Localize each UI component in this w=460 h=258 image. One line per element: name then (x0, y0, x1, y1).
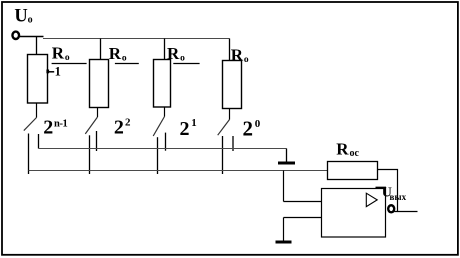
svg-text:2: 2 (125, 117, 131, 129)
svg-text:1: 1 (55, 65, 61, 79)
label R3 underline (173, 63, 199, 65)
label U0 (input voltage) (14, 6, 32, 26)
switch S1 blade (24, 118, 37, 131)
svg-text:R: R (167, 44, 180, 63)
op-amp triangle symbol (366, 193, 377, 206)
svg-text:o: o (65, 53, 70, 63)
switch S4 right contact wire (232, 136, 234, 151)
resistor R1 (28, 55, 48, 104)
svg-text:o: o (28, 14, 33, 25)
wire: R2 top stub (100, 39, 102, 60)
svg-text:2: 2 (114, 116, 124, 138)
input terminal node (12, 32, 19, 39)
wire: op-amp inverting input (284, 201, 322, 203)
svg-text:oc: oc (350, 148, 360, 159)
label Uout serif tick (376, 187, 387, 189)
svg-text:вых: вых (390, 192, 407, 202)
svg-text:U: U (14, 6, 27, 26)
label R3: Ro (167, 44, 185, 64)
svg-text:o: o (244, 55, 249, 65)
wire: upper bus (to ground) (39, 148, 287, 150)
label S1: 2^(n-1) (43, 116, 67, 138)
wire: R1 top stub (36, 37, 38, 56)
label R1 denominator "-1" (46, 65, 60, 79)
wire: R3 top stub (164, 39, 166, 60)
label R2: Ro (109, 44, 127, 64)
switch S2 right contact wire (96, 131, 98, 151)
switch S2 pole stub (97, 108, 99, 118)
ground bar (op-amp input) (276, 241, 292, 244)
wire: summing node drop (283, 171, 285, 202)
resistor R2 (90, 60, 109, 108)
svg-text:R: R (336, 140, 349, 159)
label R4: Ro (231, 45, 249, 65)
wire: non-inverting input to ground (283, 218, 285, 241)
svg-text:0: 0 (255, 118, 261, 130)
ground bar (upper bus) (278, 162, 295, 165)
svg-text:o: o (180, 54, 185, 64)
switch S2 blade (85, 117, 97, 134)
wire: feedback from Roc to output (378, 170, 398, 212)
switch S4 left contact wire (222, 136, 224, 174)
op-amp U1 box (322, 189, 386, 238)
resistor R4 (223, 61, 242, 109)
resistor Roc (feedback) (328, 162, 378, 180)
switch S1 pole stub (36, 103, 38, 118)
label S4: 2^0 (243, 117, 261, 141)
svg-text:1: 1 (191, 117, 197, 129)
wire: R4 top stub (229, 39, 231, 61)
svg-text:R: R (52, 44, 65, 63)
switch S1 left contact wire (28, 134, 30, 175)
label R2 underline (115, 63, 139, 65)
svg-text:n-1: n-1 (54, 119, 68, 130)
wire: top bus (43, 38, 230, 40)
label Uout (382, 185, 407, 202)
wire: op-amp non-inverting input (284, 217, 322, 219)
label S3: 2^1 (180, 117, 197, 140)
svg-text:2: 2 (180, 118, 190, 140)
switch S3 left contact wire (157, 137, 159, 174)
resistor R3 (154, 60, 171, 108)
switch S2 left contact wire (89, 135, 91, 174)
svg-text:2: 2 (43, 116, 53, 138)
wire: input node to first tee (19, 36, 43, 38)
label Roc (336, 140, 359, 160)
svg-text:o: o (122, 53, 127, 63)
svg-text:R: R (231, 45, 244, 64)
svg-text:R: R (109, 44, 122, 63)
switch S3 blade (153, 117, 164, 137)
switch S4 blade (218, 120, 230, 136)
svg-text:2: 2 (243, 117, 254, 141)
label S2: 2^2 (114, 116, 131, 138)
wire: output line (395, 211, 418, 213)
wire: upper bus drop to ground bar (286, 149, 288, 162)
switch S3 pole stub (164, 107, 166, 117)
switch S3 right contact wire (165, 133, 167, 151)
label R1 underline (52, 63, 87, 65)
output terminal node (388, 205, 394, 212)
label R1: Ro (52, 44, 70, 64)
switch S4 pole stub (229, 109, 231, 120)
wire: lower bus (summing line) (29, 170, 328, 172)
switch S1 right contact wire (38, 134, 40, 149)
